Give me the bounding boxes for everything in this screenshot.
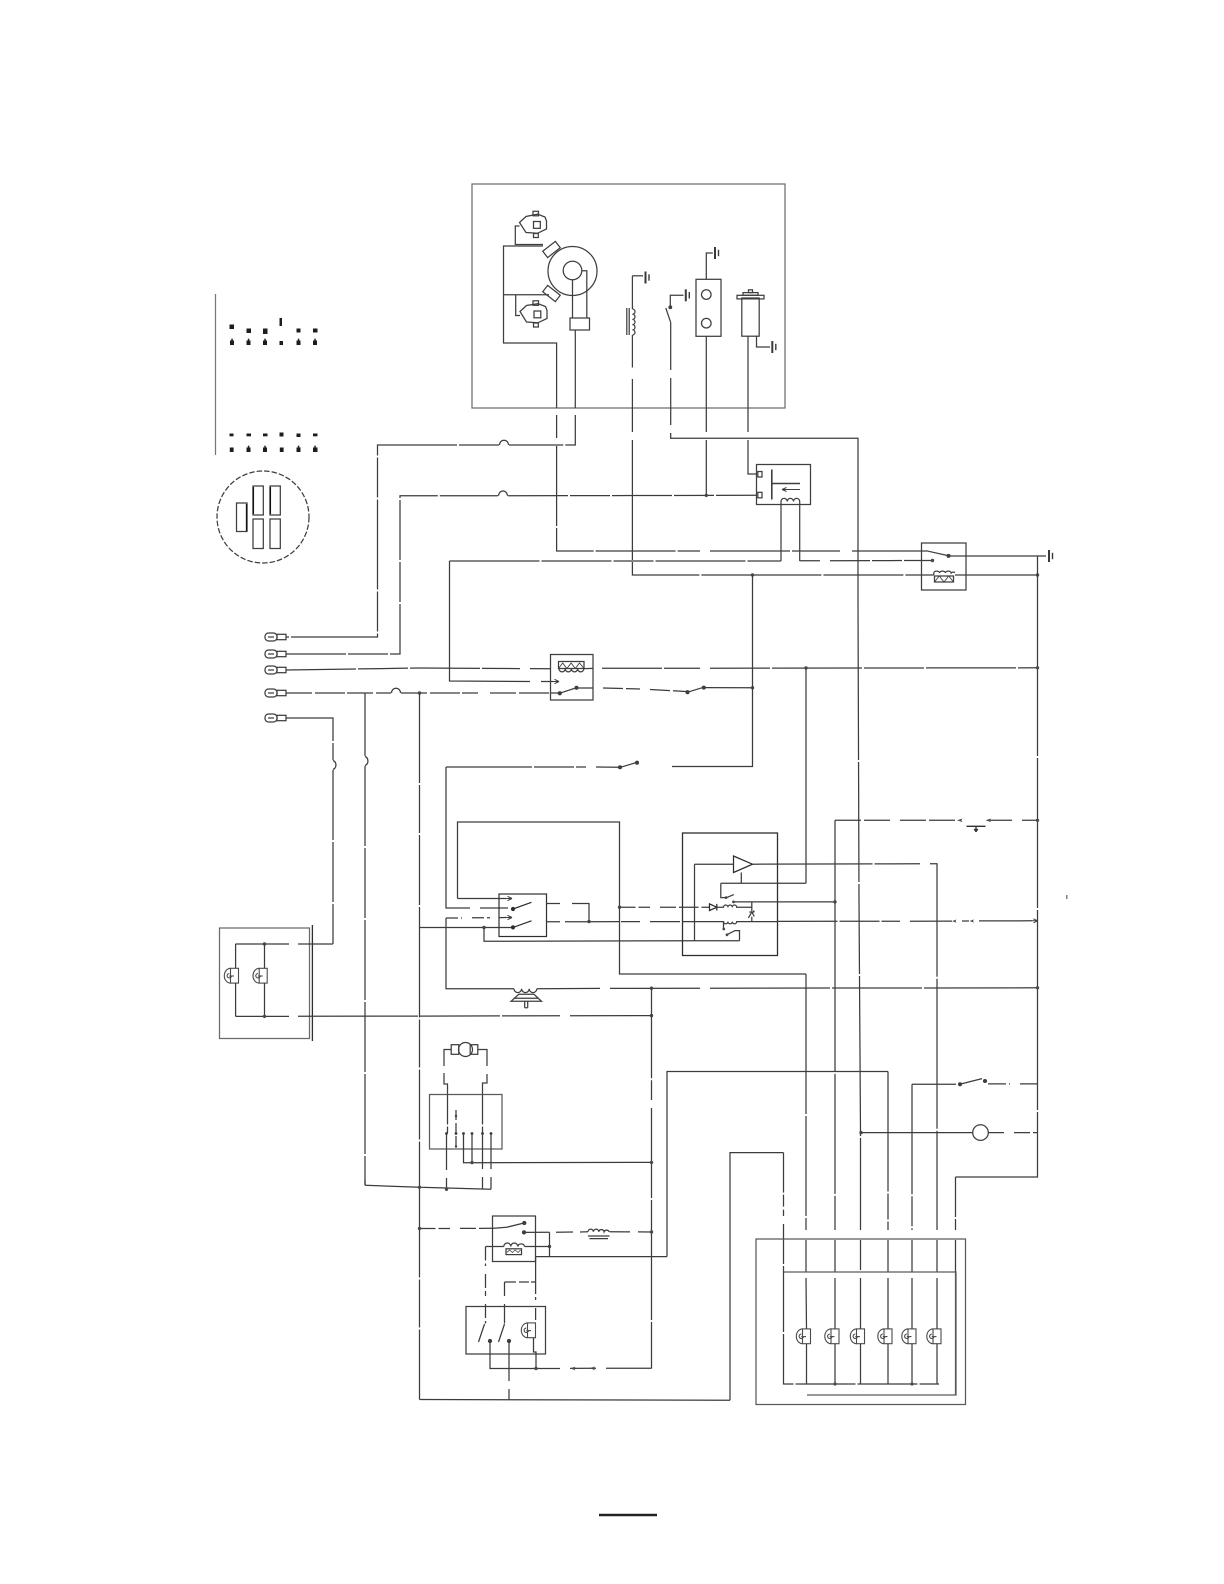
RY2 switch arm xyxy=(494,1223,524,1228)
junction (1037.5,575) xyxy=(1036,573,1039,576)
wire: engine stop to connector B2 xyxy=(286,495,757,654)
wire: solenoid out to relay pin xyxy=(800,560,931,562)
U1 input line xyxy=(695,863,734,865)
exciter coil L1 xyxy=(627,276,643,408)
wire: y561 rail from x449 xyxy=(450,560,782,562)
bullet connector B2 xyxy=(265,650,286,658)
wire jump at (365,761) xyxy=(365,757,368,766)
wire: connector B4 to flasher switch xyxy=(286,692,558,694)
SW1 pin1 feed loop from x457 xyxy=(458,822,807,974)
switch SW-B on y767 xyxy=(636,761,639,764)
junction (264.5,1016) xyxy=(263,1015,266,1018)
left margin vertical rule xyxy=(215,294,217,455)
wire: x651 rail xyxy=(651,988,653,1368)
control unit box xyxy=(683,833,778,956)
ignition coil L2 on y1231.5 xyxy=(588,1229,609,1232)
engine switch box SW1 xyxy=(499,894,547,937)
wire: flasher coil out y668 to rails xyxy=(584,667,1038,670)
pin box internal feeds xyxy=(448,1095,483,1134)
junction (651.5,1232) xyxy=(650,1230,653,1233)
ground G4 (pump) xyxy=(772,341,776,353)
wire color legend block 1 xyxy=(230,318,318,345)
wire: x730 riser xyxy=(730,1153,784,1401)
junction (1037.5,820) xyxy=(1036,819,1039,822)
pin2 drop to y1400 xyxy=(508,1341,510,1400)
ignition wiring bus xyxy=(504,246,557,408)
relay RY2 box xyxy=(493,1216,536,1262)
panel bottom bus y1384 xyxy=(784,1272,940,1384)
engine block outline xyxy=(472,184,785,408)
pi feed to lock box xyxy=(505,1257,536,1324)
wire: connector B5 down to pilot box xyxy=(286,718,333,944)
wire jump at (333,765) xyxy=(333,761,336,770)
wire: magneto earth rail y551 xyxy=(557,415,922,551)
op-amp U1 xyxy=(734,856,753,873)
wire: x912 into panel xyxy=(911,1084,913,1328)
diode D1 line into unit xyxy=(620,906,710,908)
wire: relay to ground xyxy=(966,555,1046,557)
horn/buzzer H1 xyxy=(511,989,542,1008)
pilot lamp PL2 xyxy=(264,944,266,968)
U1 feedback vertical xyxy=(694,864,696,941)
wire: x955 from right rail into panel xyxy=(955,1177,957,1272)
pilot box top rail y944 xyxy=(236,943,334,945)
fuel cut condenser/pump xyxy=(737,290,770,408)
wire jump at (504,445) xyxy=(500,440,509,445)
ground G3 (oil unit) xyxy=(715,247,719,259)
SW1 pin4 feed from x419 xyxy=(420,927,512,929)
control bottom line y940 xyxy=(695,940,740,942)
wire: ignition primary to connector B1 xyxy=(286,415,575,637)
wire: x365 bottom corner xyxy=(364,1180,366,1185)
RY2 coil xyxy=(504,1243,525,1246)
wire: oil switch down, right, to x858 rail xyxy=(671,408,858,600)
wire: x419 main rail down xyxy=(419,693,421,1400)
junction (419.5,1228.5) xyxy=(418,1227,421,1230)
wire: x365 drop from B4 line xyxy=(364,693,366,1185)
junction (835,902) xyxy=(833,900,836,903)
footer page rule xyxy=(599,1514,657,1517)
wire: x446 down to engine switch pin2 xyxy=(446,767,508,908)
junction (1037.5,988) xyxy=(1036,986,1039,989)
pilot lamp box (left) xyxy=(220,928,310,1039)
junction (264.5,944) xyxy=(263,942,266,945)
control y921 line out right with connector marks xyxy=(778,920,1033,923)
lock switch arm 1 xyxy=(479,1324,485,1342)
relay RY1 (ignition cut) box xyxy=(922,543,967,590)
wire: right rail x1037 xyxy=(956,556,1038,1177)
panel receptacle O3 xyxy=(850,1329,864,1344)
panel receptacle O4 xyxy=(878,1329,892,1344)
wire: x449 down to flasher arrow pin xyxy=(450,561,554,682)
RY2 switch feed from x419 xyxy=(420,1227,495,1229)
U1 output to x937 xyxy=(753,864,938,1329)
wire: x806 lower rail into panel xyxy=(805,974,808,1329)
pilot lamp PL1 xyxy=(235,944,237,968)
junction (752.5,575) xyxy=(751,573,754,576)
junction (1037.5,667.8) xyxy=(1036,666,1039,669)
ignition coil core 1 xyxy=(543,241,561,257)
panel receptacle O5 xyxy=(902,1329,916,1344)
zener diode Z1 xyxy=(748,911,754,918)
wire: flasher switch out y688 xyxy=(577,688,687,692)
junction (484,927.5) xyxy=(482,926,485,929)
bottom bus y1368.5 xyxy=(490,1341,652,1369)
pin row dots xyxy=(445,1115,492,1148)
horn line y988 to right rail xyxy=(537,988,1038,989)
wire: x667 riser to y1071 xyxy=(667,1072,888,1257)
flasher unit box xyxy=(551,655,594,701)
tiny scan speck xyxy=(1066,895,1068,899)
junction (651.5,988) xyxy=(650,987,653,990)
junction (752.5,688) xyxy=(751,686,754,689)
x549 drop xyxy=(549,1232,551,1256)
panel receptacle O2 xyxy=(825,1329,839,1344)
fuel cut solenoid box xyxy=(757,465,811,562)
flywheel magneto xyxy=(548,247,597,409)
junction (419.5,1187.3) xyxy=(418,1186,421,1189)
panel receptacle O1 xyxy=(806,1328,808,1330)
pilot box bottom rail y1016 to x651 xyxy=(236,1015,652,1018)
oil level switch SW-oil xyxy=(666,295,684,408)
switch SW-A contacts on y688 line xyxy=(686,691,689,694)
wire: x888 into panel xyxy=(887,1072,889,1329)
control switch S-int2 xyxy=(723,922,725,929)
junction pin dot (933,560.5) xyxy=(931,559,934,562)
junction (706,495) xyxy=(705,494,708,497)
pilot lamp LP on y1132.5 xyxy=(859,1131,862,1134)
starter motor M xyxy=(444,1043,487,1095)
wire: x752 tie line xyxy=(672,575,753,767)
bullet connector B1 xyxy=(265,633,286,641)
junction (619.5,907) xyxy=(618,906,621,909)
wire jump at (503,496) xyxy=(499,491,508,496)
connector P1 receptacle face (circle) xyxy=(217,471,309,563)
RY2 contact out y1232 xyxy=(524,1231,588,1234)
wire: y575 exciter rail xyxy=(632,408,922,575)
wire: x858 rail down to panel xyxy=(858,600,861,1329)
inductor L-dn on y921.6 xyxy=(683,922,778,924)
receptacle panel outer box xyxy=(756,1239,966,1405)
panel receptacle O6 xyxy=(927,1329,941,1344)
control switch S-int1 xyxy=(721,883,725,897)
y1256.5 tie to x667 xyxy=(536,1256,667,1258)
ignition coil core 2 xyxy=(543,285,561,301)
control feedback line y883 to x806 xyxy=(721,882,806,884)
zener branch x751.8 xyxy=(751,902,753,911)
bullet connector B3 xyxy=(265,666,286,674)
pilot box heavy right edge xyxy=(311,925,313,1041)
wire: pump to solenoid top pin xyxy=(748,408,757,474)
ground G1 (exciter) xyxy=(646,272,650,284)
frame ground T symbol xyxy=(967,826,986,832)
arrow into flasher box xyxy=(553,679,559,683)
junction (589,921.5) xyxy=(587,920,590,923)
oil level unit (two holes) xyxy=(696,253,721,408)
SW1 pole arms xyxy=(512,902,532,929)
pin stub wires xyxy=(446,1134,448,1190)
wire: x484 to control unit bottom line xyxy=(484,928,695,942)
wire: engine x706 down to solenoid line xyxy=(705,408,707,495)
battery/frame line y820 xyxy=(835,819,1038,821)
bottom line y1400 xyxy=(420,1399,731,1402)
junction (806,668) xyxy=(804,666,807,669)
wire color legend block 2 xyxy=(230,433,318,453)
junction (419.5,693) xyxy=(418,691,421,694)
arrow pin1 xyxy=(506,896,512,900)
SW1 outputs to control unit xyxy=(547,904,590,922)
ground G2 (oil switch) xyxy=(686,289,690,301)
junction (651.5,1015.6) xyxy=(650,1014,653,1017)
spark plug 1 xyxy=(515,211,546,244)
RY2 coil leads xyxy=(486,1246,504,1248)
wire: relay coil out to right rail xyxy=(966,574,1038,576)
box receptacle R0 xyxy=(521,1323,535,1338)
receptacle bottom drop xyxy=(534,1338,537,1369)
spark plug 2 xyxy=(516,295,547,327)
CDI/regulator pin box xyxy=(430,1095,503,1150)
SW1 pin3 dashed feed from x446 xyxy=(446,917,506,920)
receptacle panel inner box xyxy=(784,1272,957,1395)
bottom tie line y1190 xyxy=(365,1185,491,1189)
inductor L-up xyxy=(717,905,752,907)
wire: connector B3 to flasher coil xyxy=(286,668,551,670)
control line y902 to x835 xyxy=(734,901,836,903)
wire: x806 upper rail xyxy=(805,668,807,883)
U1 base drop xyxy=(740,873,742,884)
wire: x446 lower segment to horn line xyxy=(446,918,514,989)
wire: x835 rail into panel xyxy=(834,820,836,1328)
wire: x783 into panel xyxy=(783,1153,785,1272)
ground G5 (relay) xyxy=(1049,550,1053,562)
bullet connector B5 xyxy=(265,714,286,722)
wire jump at (396,693) xyxy=(392,688,401,693)
bullet connector B4 xyxy=(265,689,286,697)
x485 feed down to lock box xyxy=(485,1247,487,1324)
push switch on y1084 xyxy=(912,1083,956,1085)
lock switch arm 2 xyxy=(499,1324,505,1342)
junction (446.5,1189) xyxy=(445,1188,448,1191)
lock/charge switch box xyxy=(466,1307,546,1355)
